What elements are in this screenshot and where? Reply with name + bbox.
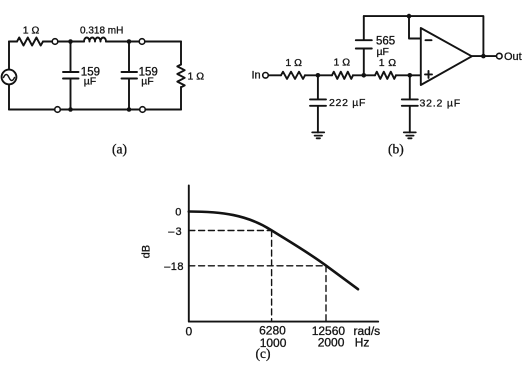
svg-text:In: In [252, 70, 261, 82]
svg-text:0.318 mH: 0.318 mH [80, 26, 123, 37]
svg-text:dB: dB [141, 245, 153, 258]
svg-text:1 Ω: 1 Ω [379, 57, 397, 69]
svg-text:–3: –3 [168, 226, 183, 238]
svg-text:µF: µF [84, 75, 96, 87]
svg-text:32.2 µF: 32.2 µF [420, 97, 461, 109]
svg-text:0: 0 [186, 325, 193, 339]
svg-text:2000: 2000 [318, 336, 345, 350]
svg-text:222 µF: 222 µF [329, 97, 366, 109]
svg-text:(c): (c) [256, 346, 271, 361]
svg-text:1 Ω: 1 Ω [188, 70, 205, 82]
svg-text:(b): (b) [388, 142, 404, 157]
svg-text:Hz: Hz [355, 336, 370, 350]
svg-text:0: 0 [175, 206, 181, 218]
svg-text:–18: –18 [164, 261, 184, 273]
svg-text:µF: µF [377, 46, 389, 58]
svg-text:1 Ω: 1 Ω [23, 25, 40, 37]
svg-text:1 Ω: 1 Ω [285, 57, 302, 69]
svg-text:Out: Out [504, 51, 522, 63]
svg-text:(a): (a) [112, 142, 127, 157]
svg-text:µF: µF [141, 75, 153, 87]
svg-text:1 Ω: 1 Ω [334, 57, 351, 69]
